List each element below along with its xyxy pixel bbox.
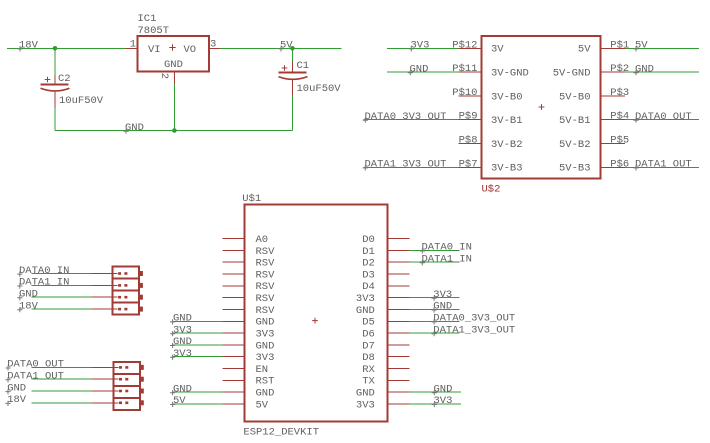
svg-text:U$2: U$2 xyxy=(482,184,501,196)
svg-text:3V3: 3V3 xyxy=(173,324,192,336)
pin stub P$8 of U$2 xyxy=(459,142,482,144)
pin stub P$2 of U$2 xyxy=(601,71,625,73)
svg-text:3V-B2: 3V-B2 xyxy=(491,139,523,151)
wire net 18V from left edge to IC1 pin 1 xyxy=(7,47,126,49)
connector J1 (input header) pin 2 tab xyxy=(139,283,143,288)
pin stub left GND (row 14) of U$1 xyxy=(223,391,245,393)
svg-text:VO: VO xyxy=(184,44,197,56)
svg-text:10uF50V: 10uF50V xyxy=(59,95,104,107)
wire net DATA0_3V3_OUT from U$1 right row 8 xyxy=(410,320,460,322)
svg-text:5V-GND: 5V-GND xyxy=(553,68,591,80)
pin stub P$6 of U$2 xyxy=(601,166,625,168)
connector J1 (input header) pin 3 tab xyxy=(139,295,143,300)
svg-text:5V-B0: 5V-B0 xyxy=(559,91,591,103)
pin stub P$11 of U$2 xyxy=(459,71,482,73)
svg-text:RSV: RSV xyxy=(256,258,276,270)
connector J2 (output header) pin 2 tab xyxy=(139,377,143,382)
svg-text:3V-B3: 3V-B3 xyxy=(491,163,523,175)
voltage regulator IC1 body xyxy=(138,36,210,72)
pin stub P$3 of U$2 xyxy=(601,95,625,97)
connector J2 (output header) pin 2 stub xyxy=(91,378,118,380)
pin stub left EN (row 12) of U$1 xyxy=(223,368,245,370)
svg-text:U$1: U$1 xyxy=(242,193,261,205)
pin stub right D4 (row 5) of U$1 xyxy=(388,285,410,287)
pin stub P$9 of U$2 xyxy=(459,119,482,121)
connector J1 (input header) cell divider 1 xyxy=(113,278,139,280)
svg-text:DATA0_3V3_OUT: DATA0_3V3_OUT xyxy=(365,111,447,123)
pin stub right D6 (row 9) of U$1 xyxy=(388,332,410,334)
pin stub P$7 of U$2 xyxy=(459,166,482,168)
wire net 18V to connector J1 (input header) pin 4 xyxy=(31,308,91,310)
svg-text:RSV: RSV xyxy=(256,281,276,293)
pin stub right D0 (row 1) of U$1 xyxy=(388,238,410,240)
svg-text:RX: RX xyxy=(362,364,375,376)
svg-text:P$10: P$10 xyxy=(452,87,477,99)
pin stub left RSV (row 6) of U$1 xyxy=(223,297,245,299)
connector J2 (output header) pin 3 stub xyxy=(91,390,118,392)
connector J2 (output header) pin 1 contact squares xyxy=(119,366,122,369)
wire GND from IC1 pin2 down to rail xyxy=(173,84,175,131)
connector J2 (output header) pin 4 stub xyxy=(91,402,118,404)
svg-text:GND: GND xyxy=(19,289,38,301)
pin stub right 3V3 (row 15) of U$1 xyxy=(388,403,410,405)
pin 2 stub of IC1 xyxy=(173,72,175,84)
connector J1 (input header) cell divider 2 xyxy=(113,290,139,292)
svg-text:RSV: RSV xyxy=(256,269,276,281)
svg-text:D4: D4 xyxy=(362,281,375,293)
svg-text:3V3: 3V3 xyxy=(434,395,453,407)
connector J1 (input header) pin 1 contact squares xyxy=(118,272,121,275)
svg-text:5V-B1: 5V-B1 xyxy=(559,115,591,127)
pin stub left 3V3 (row 11) of U$1 xyxy=(223,356,245,358)
capacitor C1 top pin xyxy=(291,61,293,72)
svg-text:ESP12_DEVKIT: ESP12_DEVKIT xyxy=(243,427,319,439)
wire net GND to U$1 left row 14 xyxy=(172,391,223,393)
svg-text:3V3: 3V3 xyxy=(256,352,275,364)
svg-text:18V: 18V xyxy=(19,40,39,52)
wire net DATA1_3V3_OUT to U$2 P$7 xyxy=(364,166,459,168)
svg-text:P$2: P$2 xyxy=(610,63,629,75)
svg-text:DATA1_IN: DATA1_IN xyxy=(19,277,69,289)
svg-text:RSV: RSV xyxy=(256,293,276,305)
svg-text:RSV: RSV xyxy=(256,305,276,317)
origin mark of U$1 xyxy=(312,318,318,324)
pin stub right D8 (row 11) of U$1 xyxy=(388,356,410,358)
svg-text:TX: TX xyxy=(362,376,375,388)
pin stub P$5 of U$2 xyxy=(601,142,625,144)
svg-text:3V: 3V xyxy=(491,44,504,56)
IC U$2 body xyxy=(482,36,601,179)
pin stub P$12 of U$2 xyxy=(459,47,482,49)
svg-text:DATA1_3V3_OUT: DATA1_3V3_OUT xyxy=(433,324,515,336)
svg-text:DATA1_OUT: DATA1_OUT xyxy=(635,159,692,171)
connector J2 (output header) pin 3 contact squares xyxy=(119,390,122,393)
connector J2 (output header) cell divider 3 xyxy=(114,397,140,399)
connector J2 (output header) pin 1 tab xyxy=(139,365,143,370)
wire net 3V3 to U$2 P$12 xyxy=(387,47,459,49)
capacitor C2 bottom pin xyxy=(54,92,56,109)
connector J2 (output header) body xyxy=(114,362,140,410)
svg-text:C2: C2 xyxy=(58,73,71,85)
svg-text:GND: GND xyxy=(173,336,192,348)
wire from C1 to GND rail xyxy=(291,95,293,131)
svg-text:GND: GND xyxy=(256,388,275,400)
connector J1 (input header) pin 4 stub xyxy=(91,308,117,310)
wire net 3V3 from U$1 right row 6 xyxy=(410,297,460,299)
pin stub right 3V3 (row 6) of U$1 xyxy=(388,297,410,299)
pin stub left A0 (row 1) of U$1 xyxy=(223,238,245,240)
svg-text:5V: 5V xyxy=(173,395,186,407)
wire net 3V3 from U$1 right row 15 xyxy=(410,403,462,405)
connector J1 (input header) cell divider 3 xyxy=(113,302,139,304)
svg-text:GND: GND xyxy=(635,63,654,75)
svg-text:P$4: P$4 xyxy=(610,111,629,123)
wire net GND to U$1 left row 10 xyxy=(172,344,223,346)
pin stub left 3V3 (row 9) of U$1 xyxy=(223,332,245,334)
wire net DATA0_IN to connector J1 (input header) pin 1 xyxy=(31,273,91,275)
svg-text:3V3: 3V3 xyxy=(411,40,430,52)
junction node GND rail xyxy=(172,128,177,133)
svg-text:D5: D5 xyxy=(362,317,375,329)
wire net GND from U$1 right row 7 xyxy=(410,308,460,310)
pin stub right GND (row 7) of U$1 xyxy=(388,308,410,310)
wire net DATA0_OUT to connector J2 (output header) pin 1 xyxy=(31,366,91,368)
svg-text:GND: GND xyxy=(256,317,275,329)
svg-text:GND: GND xyxy=(173,313,192,325)
svg-text:DATA1_3V3_OUT: DATA1_3V3_OUT xyxy=(365,159,447,171)
pin stub left RSV (row 2) of U$1 xyxy=(223,249,245,251)
svg-text:GND: GND xyxy=(356,305,375,317)
pin stub left GND (row 10) of U$1 xyxy=(223,344,245,346)
wire GND rail xyxy=(55,130,292,132)
svg-text:2: 2 xyxy=(158,73,170,79)
wire from C2 to GND rail xyxy=(54,108,56,131)
wire net DATA1_IN to connector J1 (input header) pin 2 xyxy=(31,284,91,286)
connector J1 (input header) pin 3 stub xyxy=(91,296,117,298)
pin stub left RSV (row 4) of U$1 xyxy=(223,273,245,275)
connector J1 (input header) pin 1 tab xyxy=(139,271,143,276)
pin stub left RST (row 13) of U$1 xyxy=(223,379,245,381)
svg-text:P$9: P$9 xyxy=(459,111,478,123)
wire net 18V to connector J2 (output header) pin 4 xyxy=(31,402,91,404)
wire net GND to connector J1 (input header) pin 3 xyxy=(31,296,91,298)
svg-text:GND: GND xyxy=(356,388,375,400)
pin stub right D7 (row 10) of U$1 xyxy=(388,344,410,346)
wire net DATA0_3V3_OUT to U$2 P$9 xyxy=(364,119,459,121)
connector J2 (output header) pin 4 contact squares xyxy=(119,402,122,405)
pin stub right D3 (row 4) of U$1 xyxy=(388,273,410,275)
pin stub left RSV (row 5) of U$1 xyxy=(223,285,245,287)
connector J2 (output header) cell divider 1 xyxy=(114,373,140,375)
pin stub right D2 (row 3) of U$1 xyxy=(388,261,410,263)
svg-text:GND: GND xyxy=(125,122,144,134)
svg-text:P$8: P$8 xyxy=(459,135,478,147)
svg-text:5V-B3: 5V-B3 xyxy=(559,163,591,175)
pin 1 stub of IC1 xyxy=(126,47,138,49)
svg-text:RST: RST xyxy=(256,376,275,388)
svg-text:3V3: 3V3 xyxy=(173,348,192,360)
svg-text:3V-B1: 3V-B1 xyxy=(491,115,523,127)
svg-text:DATA1_IN: DATA1_IN xyxy=(422,254,472,266)
svg-text:GND: GND xyxy=(173,383,192,395)
svg-text:3V3: 3V3 xyxy=(356,293,375,305)
wire net 5V to U$1 left row 15 xyxy=(172,403,223,405)
svg-text:P$6: P$6 xyxy=(610,158,629,170)
pin stub left RSV (row 7) of U$1 xyxy=(223,308,245,310)
capacitor C2 bottom plate (curved) xyxy=(41,88,70,91)
pin stub right RX (row 12) of U$1 xyxy=(388,368,410,370)
svg-text:D2: D2 xyxy=(362,258,375,270)
connector J1 (input header) pin 2 stub xyxy=(91,284,117,286)
svg-text:DATA1_OUT: DATA1_OUT xyxy=(7,371,64,383)
wire net GND to U$1 left row 8 xyxy=(172,320,223,322)
junction node 18V / C2 xyxy=(53,46,58,51)
connector J1 (input header) pin 4 contact squares xyxy=(118,308,121,311)
pin stub right D1 (row 2) of U$1 xyxy=(388,249,410,251)
svg-text:GND: GND xyxy=(410,63,429,75)
pin stub right D5 (row 8) of U$1 xyxy=(388,320,410,322)
wire net 5V from U$2 P$1 xyxy=(625,47,699,49)
wire net 5V from IC1 to right xyxy=(220,47,341,49)
connector J1 (input header) pin 3 contact squares xyxy=(118,296,121,299)
svg-text:A0: A0 xyxy=(256,234,269,246)
svg-text:D6: D6 xyxy=(362,329,375,341)
svg-text:3V3: 3V3 xyxy=(256,329,275,341)
svg-text:GND: GND xyxy=(433,301,452,313)
svg-text:P$11: P$11 xyxy=(452,63,477,75)
svg-text:P$12: P$12 xyxy=(452,39,477,51)
wire net 3V3 to U$1 left row 11 xyxy=(172,356,223,358)
connector J1 (input header) pin 2 contact squares xyxy=(118,284,121,287)
svg-text:GND: GND xyxy=(164,59,183,71)
wire net 3V3 to U$1 left row 9 xyxy=(172,332,223,334)
connector J2 (output header) pin 2 contact squares xyxy=(119,378,122,381)
connector J1 (input header) body xyxy=(113,267,139,315)
svg-text:D1: D1 xyxy=(362,246,375,258)
svg-text:3V-B0: 3V-B0 xyxy=(491,91,523,103)
wire net DATA1_IN from U$1 right row 3 xyxy=(410,261,460,263)
connector J2 (output header) pin 1 stub xyxy=(91,366,118,368)
svg-text:D0: D0 xyxy=(362,234,375,246)
capacitor C2 top plate xyxy=(41,83,69,85)
svg-text:3V-GND: 3V-GND xyxy=(491,68,529,80)
capacitor C1 top plate xyxy=(279,72,307,74)
wire net DATA0_OUT from U$2 P$4 xyxy=(625,119,699,121)
wire net GND from U$2 P$2 xyxy=(625,71,699,73)
svg-text:P$7: P$7 xyxy=(459,158,478,170)
pin stub right TX (row 13) of U$1 xyxy=(388,379,410,381)
svg-text:GND: GND xyxy=(7,382,26,394)
svg-text:18V: 18V xyxy=(7,394,27,406)
wire net DATA1_3V3_OUT from U$1 right row 9 xyxy=(410,332,460,334)
capacitor C1 bottom plate (curved) xyxy=(279,77,308,80)
wire net GND to U$2 P$11 xyxy=(387,71,459,73)
capacitor C1 polarity plus xyxy=(282,65,288,71)
svg-text:D3: D3 xyxy=(362,269,375,281)
svg-text:P$5: P$5 xyxy=(610,135,629,147)
pin stub P$10 of U$2 xyxy=(459,95,482,97)
svg-text:5V-B2: 5V-B2 xyxy=(559,139,591,151)
pin 3 stub of IC1 xyxy=(209,47,220,49)
wire from 5V node down to C1 xyxy=(291,48,293,61)
wire net GND to connector J2 (output header) pin 3 xyxy=(31,390,91,392)
pin stub left RSV (row 3) of U$1 xyxy=(223,261,245,263)
module U$1 ESP12_DEVKIT body xyxy=(245,205,388,422)
connector J2 (output header) pin 4 tab xyxy=(139,400,143,405)
svg-text:5V: 5V xyxy=(635,40,648,52)
svg-text:RSV: RSV xyxy=(256,246,276,258)
pin stub left GND (row 8) of U$1 xyxy=(223,320,245,322)
svg-text:EN: EN xyxy=(256,364,269,376)
svg-text:DATA0_OUT: DATA0_OUT xyxy=(7,359,64,371)
pin stub left 5V (row 15) of U$1 xyxy=(223,403,245,405)
svg-text:D8: D8 xyxy=(362,352,375,364)
svg-text:7805T: 7805T xyxy=(138,25,170,37)
wire net GND from U$1 right row 14 xyxy=(410,391,462,393)
connector J1 (input header) pin 4 tab xyxy=(139,307,143,312)
wire net DATA1_OUT to connector J2 (output header) pin 2 xyxy=(31,378,91,380)
wire net DATA0_IN from U$1 right row 2 xyxy=(410,249,460,251)
svg-text:DATA0_IN: DATA0_IN xyxy=(19,265,69,277)
svg-text:DATA0_OUT: DATA0_OUT xyxy=(635,111,692,123)
connector J1 (input header) pin 1 stub xyxy=(91,273,117,275)
svg-text:GND: GND xyxy=(256,340,275,352)
svg-text:VI: VI xyxy=(148,44,161,56)
junction node 5V / C1 xyxy=(290,46,295,51)
capacitor C2 top pin xyxy=(54,76,56,84)
svg-text:3V3: 3V3 xyxy=(433,289,452,301)
svg-text:GND: GND xyxy=(434,383,453,395)
svg-text:DATA0_IN: DATA0_IN xyxy=(422,242,472,254)
svg-text:DATA0_3V3_OUT: DATA0_3V3_OUT xyxy=(433,313,515,325)
svg-text:18V: 18V xyxy=(19,300,39,312)
svg-text:P$3: P$3 xyxy=(610,87,629,99)
svg-text:IC1: IC1 xyxy=(138,13,157,25)
connector J2 (output header) cell divider 2 xyxy=(114,385,140,387)
svg-text:1: 1 xyxy=(130,39,136,51)
svg-text:C1: C1 xyxy=(297,60,310,72)
connector J2 (output header) pin 3 tab xyxy=(139,389,143,394)
capacitor C2 polarity plus xyxy=(45,77,51,83)
wire net DATA1_OUT from U$2 P$6 xyxy=(625,166,699,168)
svg-text:5V: 5V xyxy=(578,44,591,56)
svg-text:3V3: 3V3 xyxy=(356,399,375,411)
svg-text:D7: D7 xyxy=(362,340,375,352)
capacitor C1 bottom pin xyxy=(291,80,293,95)
svg-text:10uF50V: 10uF50V xyxy=(297,83,342,95)
origin mark of U$2 xyxy=(539,104,545,110)
pin stub right GND (row 14) of U$1 xyxy=(388,391,410,393)
pin stub P$4 of U$2 xyxy=(601,119,625,121)
svg-text:5V: 5V xyxy=(256,399,269,411)
pin stub P$1 of U$2 xyxy=(601,47,625,49)
svg-text:P$1: P$1 xyxy=(610,39,629,51)
wire from 18V node down to C2 xyxy=(54,48,56,75)
origin mark of IC1 xyxy=(169,44,175,50)
